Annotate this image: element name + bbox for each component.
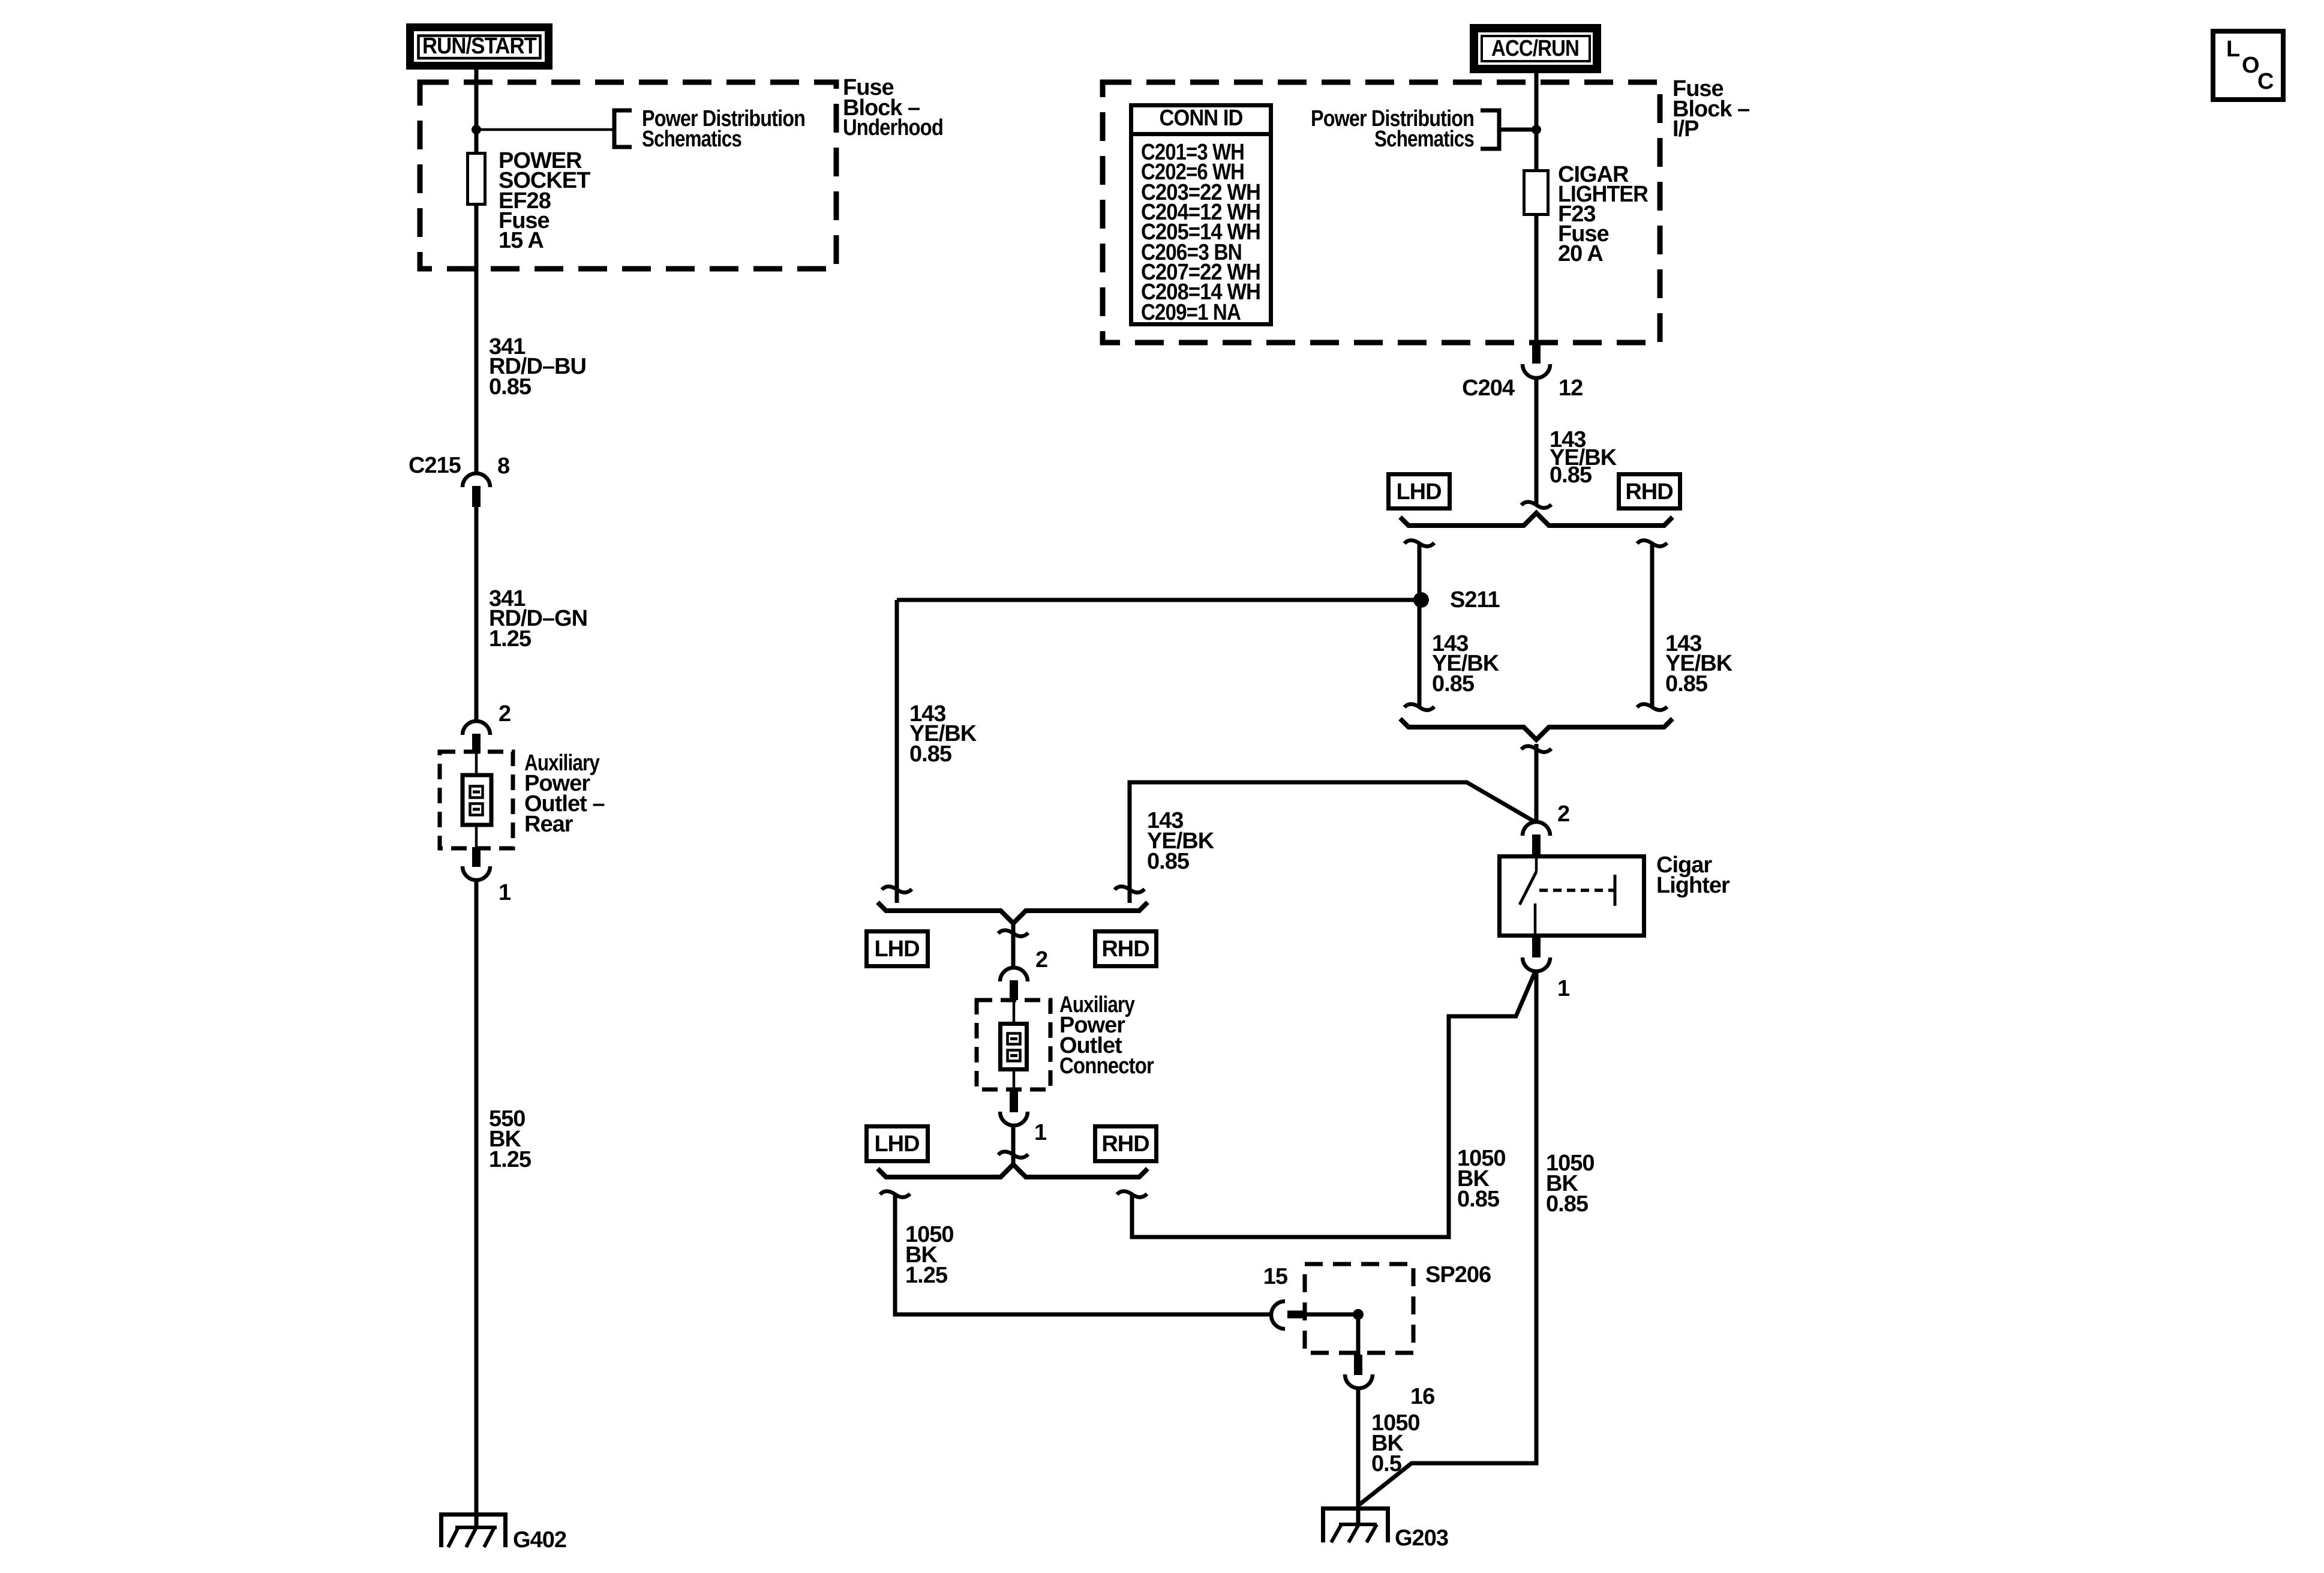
power tag ACC/RUN (1470, 24, 1601, 73)
svg-text:LHD: LHD (1396, 479, 1441, 505)
splice S211 (1413, 587, 1500, 613)
LHD box upper (1389, 475, 1450, 509)
wire SP206 to G203 (1356, 1388, 1361, 1525)
svg-text:C204: C204 (1462, 376, 1515, 401)
svg-text:LHD: LHD (874, 1131, 919, 1157)
LHD box mid (867, 932, 928, 966)
svg-text:0.85: 0.85 (1432, 671, 1475, 697)
svg-text:RHD: RHD (1101, 1131, 1149, 1157)
label Power Distribution Schematics (right) (1311, 106, 1474, 152)
label CIGAR LIGHTER F23 Fuse 20 A (1558, 162, 1649, 266)
wire label 341 RD/D-BU 0.85 (489, 334, 586, 400)
svg-text:CONN ID: CONN ID (1160, 106, 1243, 131)
fuse F23 (1524, 171, 1548, 215)
svg-text:RHD: RHD (1625, 479, 1673, 505)
svg-text:Lighter: Lighter (1656, 873, 1730, 898)
wire fuse F23 to C204 (1535, 214, 1539, 344)
LOC box (2213, 31, 2283, 100)
svg-text:15: 15 (1263, 1264, 1288, 1289)
wire label 143 YE/BK 0.85 (upper) (1550, 427, 1617, 488)
curl right mid wire (1115, 887, 1145, 893)
merge brace S211 section (1400, 719, 1673, 740)
svg-text:0.85: 0.85 (1665, 671, 1708, 697)
auxiliary power outlet rear dashed box (440, 752, 513, 848)
curl below merge brace (1521, 746, 1551, 752)
wire to schematics bracket right (1501, 128, 1536, 132)
CONN ID table (1129, 106, 1273, 326)
svg-text:12: 12 (1559, 376, 1583, 401)
svg-text:8: 8 (497, 454, 509, 479)
split brace S211 section (1400, 513, 1673, 526)
bracket right power distribution (1481, 110, 1499, 149)
svg-text:O: O (2242, 53, 2259, 78)
LHD branch wire (1418, 544, 1422, 708)
curl above bottom split (998, 1152, 1028, 1158)
connector C215 (409, 453, 509, 507)
svg-text:ACC/RUN: ACC/RUN (1491, 36, 1579, 61)
wire to cigar pin2 horizontal (1130, 782, 1534, 903)
wire merge to cigar pin 2 (1535, 744, 1539, 823)
curl RHD ground branch (1117, 1191, 1147, 1197)
connector C204 (1462, 343, 1583, 401)
svg-text:1.25: 1.25 (489, 626, 532, 652)
RHD box bottom (1095, 1127, 1157, 1161)
svg-text:C209=1 NA: C209=1 NA (1141, 300, 1241, 325)
wire to schematics bracket (476, 128, 612, 131)
svg-text:1.25: 1.25 (905, 1263, 948, 1288)
ground G203 (1321, 1506, 1448, 1551)
aux power outlet connector dashed box (977, 1000, 1050, 1089)
svg-text:Underhood: Underhood (843, 115, 943, 140)
svg-text:Connector: Connector (1059, 1053, 1154, 1079)
svg-text:RUN/START: RUN/START (422, 34, 537, 59)
splice SP206 dashed box (1305, 1264, 1413, 1353)
svg-text:0.85: 0.85 (1550, 463, 1592, 488)
svg-text:Rear: Rear (524, 812, 574, 837)
SP206 internal wire (1306, 1314, 1358, 1355)
wire label 143 YE/BK 0.85 (long left wire) (909, 701, 977, 767)
bracket left power distribution (614, 110, 632, 147)
curl above split brace (1521, 502, 1551, 508)
label POWER SOCKET EF28 Fuse 15 A (499, 148, 590, 253)
wire fuse to C215 (475, 204, 479, 473)
pin 1 connector aux outlet connector (1000, 1088, 1028, 1125)
svg-text:C: C (2257, 69, 2274, 94)
svg-text:20 A: 20 A (1558, 241, 1603, 266)
wire label 1050 BK 0.85 (left) (1457, 1146, 1506, 1212)
wire outlet to G402 (475, 880, 479, 1528)
label Power Distribution Schematics (left) (642, 106, 805, 152)
LHD box bottom (867, 1127, 928, 1161)
svg-text:2: 2 (499, 701, 511, 727)
svg-text:0.85: 0.85 (1457, 1187, 1500, 1212)
svg-text:2: 2 (1035, 947, 1047, 972)
merge brace mid section (878, 902, 1148, 923)
svg-text:0.85: 0.85 (909, 742, 952, 767)
wire label 1050 BK 0.85 (right) (1546, 1151, 1595, 1217)
wire S211 branch down left (895, 600, 899, 903)
svg-text:Schematics: Schematics (1374, 127, 1474, 152)
svg-text:SP206: SP206 (1425, 1262, 1491, 1287)
svg-text:2: 2 (1557, 801, 1569, 827)
svg-text:C215: C215 (409, 453, 461, 478)
wire label 143 YE/BK 0.85 (left branch) (1432, 631, 1500, 697)
wire label 341 RD/D-GN 1.25 (489, 586, 587, 652)
svg-text:0.5: 0.5 (1371, 1451, 1402, 1476)
wire from RUN/START to fuse EF28 (475, 70, 479, 153)
wire S211 to left (897, 598, 1421, 602)
pin 16 connector SP206 (1345, 1355, 1373, 1388)
label Fuse Block - Underhood (843, 75, 943, 140)
pin 2 connector of outlet rear (463, 721, 490, 754)
curl below mid merge (998, 930, 1028, 936)
curl top LHD branch (1404, 541, 1434, 547)
fuse block I/P dashed box (1103, 82, 1660, 343)
wire label 1050 BK 0.5 (1371, 1410, 1420, 1476)
svg-text:S211: S211 (1450, 587, 1500, 613)
pin 15 connector SP206 (1271, 1301, 1306, 1329)
wire label 550 BK 1.25 (489, 1106, 532, 1172)
svg-text:0.85: 0.85 (1147, 849, 1190, 874)
svg-text:1: 1 (1034, 1120, 1047, 1145)
curl left long wire (882, 887, 912, 893)
pin 2 connector aux outlet connector (1000, 968, 1028, 1000)
label Fuse Block - I/P (1673, 76, 1749, 142)
split brace bottom section (878, 1164, 1148, 1177)
cigar lighter box (1500, 852, 1730, 938)
pin 1 connector of outlet rear (463, 847, 490, 880)
svg-text:RHD: RHD (1101, 936, 1149, 962)
LHD ground branch (895, 1195, 1271, 1314)
RHD box mid (1095, 932, 1157, 966)
wire label 143 YE/BK 0.85 (mid wire) (1147, 808, 1215, 874)
svg-text:I/P: I/P (1673, 116, 1699, 142)
wire label 143 YE/BK 0.85 (right branch) (1665, 631, 1733, 697)
label Auxiliary Power Outlet Connector (1059, 992, 1154, 1079)
RHD branch wire (1650, 544, 1655, 708)
curl bottom RHD branch (1637, 704, 1667, 710)
svg-text:1.25: 1.25 (489, 1147, 532, 1172)
diagonal wire cigar pin1 to LHD/RHD net (1132, 973, 1535, 1237)
wire pin1 to split brace (1011, 1125, 1016, 1163)
SP206 junction dot (1353, 1309, 1364, 1320)
svg-text:1: 1 (1557, 976, 1570, 1001)
wire ACC/RUN to fuse F23 (1535, 73, 1539, 170)
svg-text:15 A: 15 A (499, 228, 544, 253)
wire merge to connector pin 2 (1011, 924, 1016, 968)
svg-text:0.85: 0.85 (1546, 1191, 1589, 1217)
svg-text:1: 1 (499, 880, 511, 905)
junction node right (1532, 125, 1541, 134)
svg-text:G402: G402 (513, 1527, 566, 1553)
wire C204 to split (1535, 378, 1539, 506)
pin 2 connector cigar lighter (1523, 822, 1550, 854)
curl LHD ground branch (880, 1191, 910, 1197)
power tag RUN/START (406, 23, 553, 70)
RHD box upper (1619, 475, 1680, 509)
svg-text:L: L (2226, 37, 2240, 62)
fuse block underhood dashed box (420, 82, 836, 269)
wire C215 to outlet pin 2 (475, 507, 479, 721)
svg-text:LHD: LHD (874, 936, 919, 962)
fuse EF28 (468, 154, 485, 205)
svg-text:Schematics: Schematics (642, 127, 741, 152)
junction node (472, 125, 481, 134)
wire cigar pin1 down right side (1359, 971, 1536, 1505)
outlet rear component (463, 754, 491, 847)
curl bottom LHD branch (1404, 704, 1434, 710)
wire label 1050 BK 1.25 (905, 1222, 954, 1288)
ground G402 (439, 1512, 566, 1553)
svg-text:0.85: 0.85 (489, 374, 532, 400)
svg-text:16: 16 (1410, 1384, 1434, 1409)
label Auxiliary Power Outlet - Rear (524, 751, 604, 837)
curl top RHD branch (1637, 541, 1667, 547)
aux outlet connector component (1001, 1000, 1027, 1088)
pin 1 connector cigar lighter (1523, 938, 1550, 971)
svg-text:G203: G203 (1395, 1526, 1448, 1551)
